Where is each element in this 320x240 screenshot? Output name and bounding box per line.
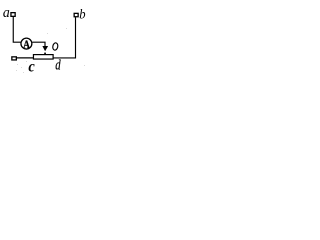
- svg-text:c: c: [28, 58, 35, 74]
- svg-text:b: b: [79, 6, 86, 22]
- svg-text:A: A: [23, 39, 30, 51]
- svg-text:a: a: [3, 5, 10, 21]
- svg-text:d: d: [55, 56, 61, 73]
